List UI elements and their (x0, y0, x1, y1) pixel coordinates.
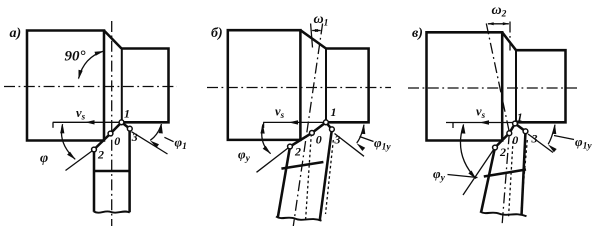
svg-text:б): б) (211, 26, 223, 41)
tool shank break line panel b (276, 217, 322, 221)
svg-text:3: 3 (531, 132, 538, 146)
node 0 panel a (108, 131, 113, 136)
svg-text:0: 0 (316, 133, 322, 147)
workpiece large cylinder panel a (27, 31, 104, 141)
center line (workpiece axis) panel v (408, 87, 577, 89)
svg-text:3: 3 (334, 133, 341, 147)
ghost of unrotated right edge (dotted) panel b (326, 140, 334, 214)
vertical reference line for omega2 panel v (509, 22, 511, 51)
cutting edge extension line from 2 panel a (66, 150, 95, 171)
phi arc panel a (61, 124, 75, 159)
node 0 panel b (310, 131, 315, 136)
rotated axis upper segment dash-dot panel v (486, 24, 509, 134)
node 2 panel b (288, 144, 293, 149)
svg-text:90°: 90° (65, 49, 86, 65)
svg-text:1: 1 (517, 110, 523, 124)
90° arc panel a (79, 51, 104, 79)
tool shank break line panel a (94, 211, 130, 212)
ghost of unrotated axis (dotted) panel b (306, 134, 312, 221)
workpiece large cylinder panel b (228, 30, 301, 140)
phi_1y leader line panel v (554, 136, 574, 140)
node 1 panel b (324, 120, 329, 125)
tool left edge panel v (481, 148, 495, 213)
tool main cutting edge 2-0-1 panel v (495, 124, 515, 148)
rotated tool axis lower dash-dot panel v (502, 133, 509, 226)
feed line v_s panel v (446, 122, 515, 124)
node 1 panel a (119, 120, 124, 125)
ghost line dotted inner panel v (509, 141, 514, 218)
svg-text:φ: φ (40, 151, 48, 166)
svg-text:2: 2 (499, 145, 506, 159)
feed line v_s panel a (53, 121, 122, 123)
cone shoulder line panel b (300, 30, 326, 48)
cone-cylinder junction line panel a (121, 49, 123, 123)
aux edge extension line from 3 panel b (335, 134, 365, 157)
cutting edge extension line from 2 panel b (257, 147, 291, 173)
phi_y arc panel b (262, 124, 271, 153)
svg-text:0: 0 (512, 133, 518, 147)
tool auxiliary cutting edge 1-3 panel a (122, 122, 130, 128)
tool main cutting edge 2-0-1 panel b (290, 122, 326, 146)
tool head/shank joint line panel v (484, 170, 526, 177)
workpiece small cylinder panel b (326, 49, 369, 123)
workpiece small cylinder panel a (122, 49, 169, 123)
node 3 panel a (127, 126, 132, 131)
tool head/shank joint line panel b (281, 162, 323, 169)
node 1 panel v (513, 121, 518, 126)
feed line v_s panel b (263, 121, 326, 123)
phi1 leader line panel a (164, 137, 173, 141)
tool head/shank joint line panel a (94, 170, 130, 173)
omega1 double arrow panel b (312, 30, 320, 32)
svg-text:в): в) (412, 26, 423, 41)
cone-cylinder junction line panel v (515, 50, 517, 122)
aux edge extension line from 3 panel v (528, 134, 553, 153)
phi_1y leader line panel b (360, 137, 374, 142)
phi_1y arc panel v (548, 125, 555, 145)
tool right edge panel b (320, 129, 332, 220)
tool axis vertical dash-dot panel a (111, 21, 113, 226)
svg-text:2: 2 (97, 148, 104, 162)
tool left edge panel b (278, 147, 290, 218)
cone-cylinder junction line panel b (325, 49, 327, 123)
tool main cutting edge 2-0-1 panel a (94, 122, 122, 149)
omega2 double arrow panel v (488, 23, 509, 25)
node 0 panel v (507, 131, 512, 136)
phi1 arc panel a (150, 124, 161, 140)
svg-text:3: 3 (131, 130, 138, 144)
center line (workpiece axis) panel b (207, 87, 391, 89)
aux edge extension line from 3 panel a (132, 132, 168, 154)
cone shoulder line panel a (104, 31, 122, 49)
vertical reference line for omega1 panel b (311, 24, 313, 48)
node 2 panel a (92, 147, 97, 152)
tool auxiliary cutting edge 1-3 panel v (515, 124, 526, 132)
phi_y leader line panel v (448, 175, 478, 178)
svg-text:0: 0 (114, 134, 120, 148)
workpiece large cylinder panel v (427, 32, 503, 140)
cone shoulder line panel v (502, 32, 516, 50)
center line (workpiece axis) panel a (4, 86, 177, 88)
node 3 panel v (523, 129, 528, 134)
node 3 panel b (330, 127, 335, 132)
tool right edge panel a (128, 129, 131, 213)
cutting edge extension line from 2 panel v (463, 148, 495, 196)
tool auxiliary cutting edge 1-3 panel b (326, 122, 332, 129)
tool left edge panel a (93, 150, 96, 212)
node 2 panel v (493, 145, 498, 150)
svg-text:2: 2 (294, 145, 301, 159)
tool right edge panel v (522, 131, 526, 215)
workpiece small cylinder panel v (515, 50, 566, 122)
svg-text:а): а) (10, 26, 22, 41)
tool shank break line panel v (480, 212, 527, 217)
ghost of right edge dotted panel v (521, 140, 527, 212)
phi_1y arc panel b (357, 125, 364, 143)
svg-text:1: 1 (124, 107, 130, 121)
rotated tool axis dash-dot panel b (293, 24, 322, 227)
svg-text:1: 1 (331, 105, 337, 119)
phi_y arc panel v (460, 124, 476, 178)
